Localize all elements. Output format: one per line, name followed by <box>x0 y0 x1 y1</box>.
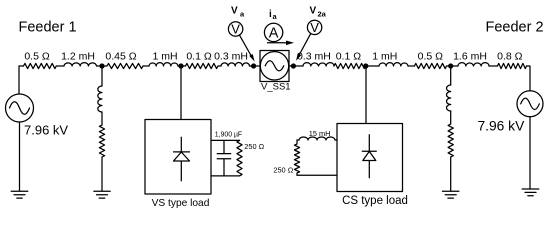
wire <box>408 65 415 67</box>
svg-text:7.96 kV: 7.96 kV <box>24 123 68 138</box>
resistor 0.5 ohm (right) <box>415 63 447 68</box>
voltmeter V2a <box>307 20 321 35</box>
label 250 Ohm (CS load) <box>273 166 293 175</box>
svg-text:1 mH: 1 mH <box>372 51 397 63</box>
wire shunt2 bottom <box>450 157 452 191</box>
svg-text:0.3 mH: 0.3 mH <box>214 51 248 63</box>
resistor 0.1 ohm (left) <box>186 63 219 68</box>
wire <box>447 65 459 67</box>
label Va <box>231 6 245 19</box>
label 1.2 mH <box>61 51 95 63</box>
wire to V_SS1 left terminal <box>250 65 261 67</box>
label Feeder 1 <box>19 20 77 36</box>
resistor shunt1 <box>99 125 104 157</box>
svg-text:V_SS1: V_SS1 <box>261 82 291 93</box>
inductor 1.2 mH <box>64 63 97 66</box>
wire <box>101 112 103 125</box>
svg-text:7.96 kV: 7.96 kV <box>478 119 526 134</box>
resistor 250 ohm (VS load) <box>237 140 242 176</box>
label 1 mH (right) <box>372 51 397 63</box>
svg-text:Feeder 1: Feeder 1 <box>19 20 77 36</box>
resistor 0.1 ohm (right) <box>334 63 366 68</box>
label 0.8 Ohm <box>497 51 523 63</box>
AC source G2 (7.96 kV) <box>517 91 543 117</box>
label Feeder 2 <box>486 20 544 36</box>
wire <box>143 65 149 67</box>
label 0.1 Ohm (left) <box>186 51 212 63</box>
svg-text:0.8 Ω: 0.8 Ω <box>497 51 523 63</box>
capacitor 1,900 uF <box>217 140 231 176</box>
svg-text:1.6 mH: 1.6 mH <box>453 51 487 63</box>
resistor 250 ohm (CS load) <box>294 140 299 175</box>
label 1.6 mH <box>453 51 487 63</box>
wire source-G2-to-ground <box>529 117 531 189</box>
label 0.45 Ohm <box>105 51 136 63</box>
svg-text:0.5 Ω: 0.5 Ω <box>24 51 50 63</box>
svg-text:0.1 Ω: 0.1 Ω <box>186 51 212 63</box>
wire <box>178 65 186 67</box>
diode (VS load) <box>174 137 190 181</box>
node A (V_SS1 left terminal) <box>251 63 256 68</box>
resistor shunt2 <box>448 124 453 157</box>
svg-text:1,900 µF: 1,900 µF <box>215 132 242 139</box>
resistor 0.45 ohm <box>107 63 143 68</box>
label VS type load <box>152 198 210 209</box>
svg-text:0.1 Ω: 0.1 Ω <box>336 51 362 63</box>
wire CS loop top rail <box>297 139 299 141</box>
label V2a <box>310 6 327 19</box>
svg-text:CS type load: CS type load <box>342 195 408 207</box>
svg-text:Feeder 2: Feeder 2 <box>486 20 544 36</box>
resistor 0.5 ohm <box>24 63 57 68</box>
label CS type load <box>342 195 408 207</box>
label 0.3 mH (left) <box>214 51 248 63</box>
svg-text:a: a <box>240 10 245 19</box>
current direction arrow ia <box>268 41 295 46</box>
V2a probe arrow to node B <box>296 34 311 61</box>
inductor shunt2 <box>447 85 451 111</box>
svg-text:V: V <box>310 20 319 35</box>
wire bus-to-CS-load <box>365 66 367 124</box>
wire shunt1 top <box>101 66 103 86</box>
VS type load box <box>145 120 211 195</box>
ground (Feeder 2 source) <box>522 189 539 196</box>
svg-text:2a: 2a <box>318 10 327 19</box>
svg-text:1.2 mH: 1.2 mH <box>61 51 95 63</box>
ground (shunt2) <box>442 191 459 198</box>
inductor 1 mH (left) <box>149 63 178 66</box>
wire <box>56 65 64 67</box>
svg-text:15 mH: 15 mH <box>309 129 331 138</box>
svg-text:VS type load: VS type load <box>152 198 210 209</box>
inductor 1 mH (right) <box>379 63 408 66</box>
svg-text:0.45 Ω: 0.45 Ω <box>105 51 136 63</box>
wire from V_SS1 right <box>289 65 303 67</box>
label 0.5 Ohm <box>24 51 50 63</box>
wire shunt1 bottom <box>101 157 103 191</box>
wire bus-to-source-G1 <box>18 66 20 94</box>
AC source G1 (7.96 kV) <box>6 94 34 122</box>
Va probe arrow to node A <box>239 35 254 62</box>
node junction shunt1 <box>99 63 104 68</box>
wire shunt2 top <box>450 66 452 85</box>
svg-text:V: V <box>231 6 238 17</box>
voltmeter Va <box>228 22 242 37</box>
label 7.96 kV (Feeder 2) <box>478 119 526 134</box>
resistor 0.8 ohm <box>498 63 527 68</box>
inductor 15 mH <box>299 137 335 140</box>
svg-text:V: V <box>310 6 317 17</box>
wire VS load RC top rail <box>211 139 240 141</box>
node B (V_SS1 right terminal) <box>291 63 296 68</box>
voltage source converter V_SS1 <box>260 51 289 82</box>
label ia <box>269 9 278 21</box>
inductor 1.6 mH <box>458 63 489 66</box>
svg-text:1 mH: 1 mH <box>152 51 177 63</box>
node junction VS load <box>178 63 183 68</box>
svg-text:0.5 Ω: 0.5 Ω <box>418 51 444 63</box>
ground (Feeder 1 source) <box>11 191 28 198</box>
diode (CS load) <box>362 135 376 178</box>
label 15 mH <box>309 129 331 138</box>
svg-text:250 Ω: 250 Ω <box>244 142 264 151</box>
wire <box>489 65 498 67</box>
ammeter ia <box>264 23 282 41</box>
label 250 Ohm (VS load) <box>244 142 264 151</box>
label 1 mH (left) <box>152 51 177 63</box>
svg-text:0.3 mH: 0.3 mH <box>297 51 331 63</box>
wire <box>450 111 452 124</box>
wire <box>366 65 380 67</box>
wire source-G1-to-ground <box>19 122 21 191</box>
inductor shunt1 <box>98 86 102 112</box>
wire CS loop bottom rail <box>297 174 337 176</box>
wire <box>97 65 108 67</box>
label 1,900 uF <box>215 132 242 139</box>
label 0.5 Ohm (right) <box>418 51 444 63</box>
wire bus right end corner <box>527 66 531 91</box>
wire bus-to-VS-load <box>180 66 182 120</box>
wire <box>218 65 221 67</box>
wire bus left end <box>19 65 24 67</box>
label 0.3 mH (right) <box>297 51 331 63</box>
label 7.96 kV (Feeder 1) <box>24 123 68 138</box>
node junction CS load <box>363 63 368 68</box>
inductor 0.3 mH (right) <box>303 63 334 66</box>
label V_SS1 <box>261 82 291 93</box>
svg-text:A: A <box>269 26 279 42</box>
wire <box>335 139 337 141</box>
inductor 0.3 mH (left) <box>221 63 250 66</box>
svg-text:250 Ω: 250 Ω <box>273 166 293 175</box>
svg-text:a: a <box>273 12 278 21</box>
CS type load box <box>337 124 403 192</box>
node junction shunt2 <box>448 63 453 68</box>
label 0.1 Ohm (right) <box>336 51 362 63</box>
ground (shunt1) <box>94 191 110 198</box>
wire VS load RC bottom rail <box>211 175 240 177</box>
